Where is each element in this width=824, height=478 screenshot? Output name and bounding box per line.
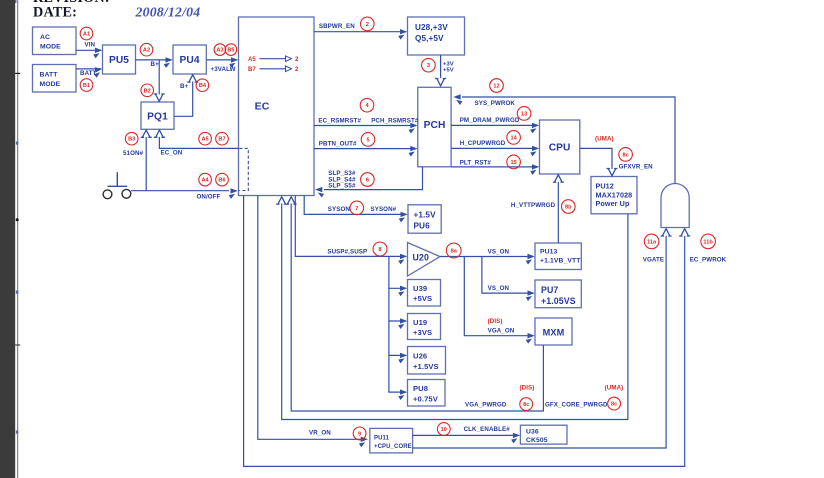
svg-text:7: 7 [355, 206, 358, 212]
node 11b circle [701, 234, 716, 249]
chipset PCH [418, 87, 451, 167]
svg-text:(DIS): (DIS) [520, 385, 535, 392]
svg-text:CK505: CK505 [526, 437, 548, 444]
label PBTN_OUT# [319, 141, 357, 148]
label H_CPUPWRGD [460, 140, 506, 147]
svg-text:VGA_ON: VGA_ON [488, 327, 515, 334]
label EC_PWROK [690, 257, 727, 264]
processor CPU [540, 120, 580, 174]
svg-text:B2: B2 [144, 88, 151, 94]
svg-text:U20: U20 [413, 252, 429, 262]
wire +3VALW PU4 to EC [206, 57, 238, 68]
node 4 circle [360, 98, 374, 112]
label +5V [443, 68, 454, 74]
wire B+ PU5 to PU4 [136, 57, 173, 68]
label UMA red near CPU [595, 135, 614, 142]
label ON/OFF [197, 193, 221, 200]
svg-text:(UMA): (UMA) [605, 385, 624, 392]
EC dashed power-button cell [239, 148, 248, 190]
wire PBTN_OUT# [314, 146, 418, 157]
label DIS red bottom [520, 385, 535, 392]
svg-text:SUSP#,SUSP: SUSP#,SUSP [327, 248, 367, 255]
wire BATT to PU5 [76, 66, 103, 78]
svg-text:AC: AC [40, 34, 50, 41]
svg-text:PBTN_OUT#: PBTN_OUT# [319, 141, 357, 148]
svg-text:VS_ON: VS_ON [488, 285, 510, 292]
regulator PU12 MAX17028 Power Up [591, 177, 637, 214]
node 8c circle [520, 398, 533, 411]
svg-text:A2: A2 [143, 48, 150, 54]
svg-text:8c: 8c [611, 402, 617, 408]
svg-text:11a: 11a [647, 239, 657, 245]
label SYSON# [371, 206, 397, 213]
svg-text:+5V: +5V [443, 68, 454, 74]
title date value 2008/12/04 [135, 4, 201, 19]
node 3 circle [422, 58, 436, 72]
wire PQ1 output up to PU4 [174, 75, 198, 117]
label SYS_PWROK [475, 100, 516, 107]
svg-text:+1.5V: +1.5V [414, 211, 437, 220]
node 2 circle [361, 17, 375, 31]
wire ON/OFF switch to EC [131, 188, 238, 199]
node 12 circle [490, 79, 504, 93]
svg-text:B5: B5 [227, 48, 234, 54]
svg-text:PU6: PU6 [414, 222, 431, 231]
node A4 circle [199, 173, 212, 186]
node 5 circle [361, 133, 375, 147]
node B6 circle [216, 173, 229, 186]
svg-text:U36: U36 [526, 429, 539, 436]
svg-text:U26: U26 [413, 352, 427, 361]
regulator PU13 +1.1VB_VTT [535, 243, 581, 270]
svg-text:EC_ON: EC_ON [161, 150, 183, 157]
wire B+ drop to PQ1 [154, 60, 165, 101]
svg-text:+1.1VB_VTT: +1.1VB_VTT [540, 258, 581, 265]
svg-text:BATT: BATT [40, 72, 59, 79]
svg-text:B3: B3 [128, 137, 135, 143]
regulator U26 +1.5VS [408, 347, 446, 375]
svg-text:GFX_CORE_PWRGD: GFX_CORE_PWRGD [545, 402, 608, 409]
node 7 circle [350, 201, 364, 215]
svg-text:+5VS: +5VS [413, 294, 432, 303]
wire 51ON# up to PQ1 [141, 130, 152, 191]
svg-text:(DIS): (DIS) [488, 318, 503, 325]
label VGATE [643, 257, 664, 264]
node B3 circle [125, 132, 138, 145]
node 9 circle [353, 427, 366, 440]
svg-text:A3: A3 [216, 48, 223, 54]
svg-text:PM_DRAM_PWRGD: PM_DRAM_PWRGD [460, 117, 520, 124]
regulator PU6 +1.5V [408, 205, 441, 233]
svg-text:H_CPUPWRGD: H_CPUPWRGD [460, 140, 506, 147]
buffer U20 [408, 243, 441, 277]
svg-text:U28,+3V: U28,+3V [415, 23, 448, 32]
svg-text:VIN: VIN [85, 42, 96, 49]
svg-text:PU8: PU8 [413, 384, 428, 393]
svg-text:+3VS: +3VS [413, 328, 432, 337]
node 8a circle [446, 243, 461, 258]
wire PLT_RST# PCH to CPU [451, 164, 539, 175]
regulator U39 +5VS [408, 280, 441, 307]
svg-text:SYS_PWROK: SYS_PWROK [475, 100, 516, 107]
regulator PU7 +1.05VS [535, 280, 581, 308]
node 14 circle [507, 131, 521, 145]
svg-text:8b: 8b [565, 205, 572, 211]
svg-text:PLT_RST#: PLT_RST# [460, 159, 492, 166]
svg-text:VR_ON: VR_ON [309, 430, 331, 437]
wire EC_PWROK EC to and-gate [244, 196, 691, 467]
svg-text:14: 14 [510, 135, 517, 141]
label VS_ON to PU7 [488, 285, 510, 292]
label SLP_S3# [328, 170, 356, 177]
node B7 circle [216, 132, 229, 145]
label SBPWR_EN [319, 23, 355, 30]
node 11a circle [644, 234, 659, 249]
node 15 circle [507, 155, 521, 169]
svg-text:H_VTTPWRGD: H_VTTPWRGD [511, 202, 556, 209]
wire SYSON EC to PU6 [304, 196, 408, 223]
wire +3V +5V U28 to PCH [435, 55, 446, 86]
svg-text:A5: A5 [202, 137, 209, 143]
svg-text:EC_PWROK: EC_PWROK [690, 257, 727, 264]
wire VGA_ON branch to MXM [464, 257, 535, 344]
label VGA_ON [488, 327, 515, 334]
node A3 circle [214, 44, 226, 56]
svg-text:11b: 11b [703, 239, 713, 245]
wire VS_ON branch to PU7 [482, 257, 535, 302]
svg-text:VGATE: VGATE [643, 257, 664, 264]
label CLK_ENABLE# [464, 426, 511, 433]
regulator U19 +3VS [408, 314, 441, 340]
clock U36 CK505 [520, 425, 567, 444]
wire SLP_S3/S4/S5 PCH to EC [315, 167, 423, 198]
svg-text:B7: B7 [248, 67, 256, 73]
svg-text:9: 9 [358, 431, 361, 437]
title DATE: [33, 4, 77, 20]
label PM_DRAM_PWRGD [460, 117, 520, 124]
svg-text:SBPWR_EN: SBPWR_EN [319, 23, 355, 30]
label DIS VGA_ON red [488, 318, 503, 325]
svg-text:12: 12 [493, 84, 499, 90]
svg-text:2008/12/04: 2008/12/04 [135, 4, 201, 19]
wire H_VTTPWRGD PU13 to CPU [553, 175, 564, 243]
wire CLK_ENABLE# PU11 to U36 [413, 433, 521, 444]
node 13 circle [517, 107, 531, 121]
wire VGA_PWRGD MXM to EC [286, 197, 544, 411]
regulator PU4 [173, 45, 206, 74]
svg-text:MAX17028: MAX17028 [596, 190, 633, 199]
EC internal A5 to sheet 2 [248, 56, 299, 63]
push-button switch [103, 172, 131, 199]
svg-text:8: 8 [378, 247, 381, 253]
svg-text:B7: B7 [218, 137, 225, 143]
label VR_ON [309, 430, 331, 437]
svg-text:B1: B1 [83, 83, 90, 89]
svg-text:+0.75V: +0.75V [413, 395, 439, 404]
node A1 circle [80, 27, 93, 40]
node 8 circle [373, 242, 387, 256]
svg-text:B+: B+ [151, 61, 160, 68]
label B+ PQ1-PU4 [180, 83, 189, 90]
label BATT [80, 70, 97, 77]
label SYSON [328, 206, 351, 213]
node 8c circle [608, 397, 621, 410]
controller EC [239, 17, 315, 196]
svg-text:PU7: PU7 [541, 285, 558, 295]
svg-text:PU12: PU12 [596, 182, 614, 191]
label +3VALW [211, 66, 236, 73]
svg-text:CLK_ENABLE#: CLK_ENABLE# [464, 426, 511, 433]
label SUSP#,SUSP [327, 248, 367, 255]
node A2 circle [140, 43, 153, 56]
node B2 circle [141, 84, 154, 97]
label EC_ON [161, 150, 183, 157]
svg-text:B4: B4 [199, 83, 207, 89]
wire SBPWR_EN EC to U28 [314, 29, 407, 40]
node 8c circle [619, 148, 633, 162]
wire EC_RSMRST# PCH_RSMRST# [314, 123, 418, 134]
label PLT_RST# [460, 159, 492, 166]
wire PM_DRAM_PWRGD PCH to CPU [451, 123, 539, 134]
label VIN [85, 42, 96, 49]
svg-text:PU13: PU13 [540, 249, 558, 256]
svg-text:EC_RSMRST#: EC_RSMRST# [318, 118, 361, 125]
block U28 Q5 +3V +5V [408, 17, 465, 55]
svg-text:B+: B+ [180, 83, 189, 90]
svg-text:8c: 8c [622, 152, 628, 158]
wire GFXVR_EN CPU to PU12 [580, 148, 618, 175]
svg-text:15: 15 [510, 160, 516, 166]
svg-text:MODE: MODE [40, 81, 61, 88]
wire VGATE PU11 to and-gate [413, 229, 672, 448]
svg-text:MODE: MODE [40, 44, 61, 51]
wire GFX_CORE_PWRGD PU12 to EC [276, 197, 628, 420]
block BATT MODE [33, 65, 77, 93]
svg-text:VGA_PWRGD: VGA_PWRGD [465, 402, 507, 409]
svg-text:10: 10 [441, 427, 447, 433]
svg-text:2: 2 [295, 67, 299, 73]
wire VS_ON U20 to PU13 [440, 254, 535, 265]
sheet border inner line [15, 0, 20, 478]
svg-text:PQ1: PQ1 [147, 111, 168, 122]
transistor PQ1 [141, 102, 174, 129]
svg-text:SYSON: SYSON [328, 206, 351, 213]
svg-text:A5: A5 [248, 57, 256, 63]
svg-text:8c: 8c [523, 402, 529, 408]
module MXM [535, 318, 572, 345]
svg-text:U39: U39 [413, 284, 427, 293]
label SLP_S4# [328, 176, 356, 183]
svg-text:A4: A4 [202, 178, 210, 184]
svg-text:BATT: BATT [80, 70, 97, 77]
label 51ON# [123, 150, 144, 157]
wire H_CPUPWRGD PCH to CPU [451, 146, 539, 157]
svg-text:PCH_RSMRST#: PCH_RSMRST# [371, 118, 419, 125]
label SLP_S5# [328, 183, 356, 190]
wire SYS_PWROK and-gate to PCH [453, 94, 675, 183]
svg-text:6: 6 [366, 178, 369, 184]
node 8b circle [562, 200, 576, 214]
svg-text:VS_ON: VS_ON [488, 249, 510, 256]
svg-text:8a: 8a [451, 249, 458, 255]
label PCH_RSMRST# [371, 118, 419, 125]
label B+ PU5-PU4 [151, 61, 160, 68]
svg-text:U19: U19 [413, 318, 427, 327]
wire VIN AC MODE to PU5 [76, 48, 102, 59]
svg-text:+CPU_CORE: +CPU_CORE [374, 444, 412, 450]
sheet border black bar [0, 0, 16, 478]
node 6 circle [361, 173, 375, 187]
label GFXVR_EN [619, 163, 654, 170]
wire EC_ON from EC to PQ1 [154, 130, 239, 148]
svg-text:SYSON#: SYSON# [371, 206, 397, 213]
svg-text:PU5: PU5 [109, 55, 129, 66]
svg-text:DATE:: DATE: [33, 4, 77, 20]
EC internal B7 to sheet 2 [248, 66, 299, 73]
label +3V [443, 62, 454, 68]
node A5 circle [199, 132, 212, 145]
wire SUSP EC to U20 [295, 196, 407, 265]
label H_VTTPWRGD [511, 202, 556, 209]
svg-text:Power Up: Power Up [596, 199, 630, 208]
svg-text:MXM: MXM [543, 327, 565, 337]
svg-text:PCH: PCH [424, 120, 446, 131]
node B1 circle [80, 79, 93, 92]
svg-text:51ON#: 51ON# [123, 150, 144, 157]
svg-text:+3VALW: +3VALW [211, 66, 236, 73]
svg-text:A1: A1 [83, 32, 90, 38]
regulator PU11 +CPU_CORE [370, 428, 413, 453]
wire SUSP feeder to U39 U19 U26 PU8 [389, 256, 407, 400]
label GFX_CORE_PWRGD [545, 402, 608, 409]
svg-text:GFXVR_EN: GFXVR_EN [619, 163, 654, 170]
svg-text:PU4: PU4 [180, 55, 200, 66]
svg-text:CPU: CPU [549, 143, 571, 154]
svg-text:3: 3 [427, 63, 430, 69]
svg-text:2: 2 [295, 57, 299, 63]
svg-text:2: 2 [366, 22, 369, 28]
svg-text:Q5,+5V: Q5,+5V [415, 34, 444, 43]
regulator PU5 [103, 45, 136, 74]
block AC MODE [33, 27, 77, 55]
svg-text:PU11: PU11 [374, 436, 390, 442]
regulator PU8 +0.75V [408, 380, 446, 407]
svg-text:5: 5 [366, 137, 369, 143]
node B5 circle [225, 44, 237, 56]
wire VR_ON EC to PU11 [258, 196, 368, 448]
label UMA red bottom [605, 385, 624, 392]
svg-text:B6: B6 [218, 178, 225, 184]
svg-text:+1.5VS: +1.5VS [413, 362, 439, 371]
svg-text:13: 13 [521, 111, 527, 117]
svg-text:+1.05VS: +1.05VS [541, 296, 576, 306]
svg-text:ON/OFF: ON/OFF [197, 193, 221, 200]
label VGA_PWRGD [465, 402, 507, 409]
label VS_ON to PU13 [488, 249, 510, 256]
label EC_RSMRST# [318, 118, 361, 125]
title REVISION (clipped at top) [33, 0, 110, 6]
svg-text:EC: EC [255, 101, 270, 113]
svg-text:(UMA): (UMA) [595, 135, 614, 142]
node 10 circle [437, 423, 450, 436]
svg-text:SLP_S5#: SLP_S5# [328, 183, 356, 190]
and-gate U-shape power-good combiner [661, 184, 689, 228]
node B4 circle [196, 79, 209, 92]
